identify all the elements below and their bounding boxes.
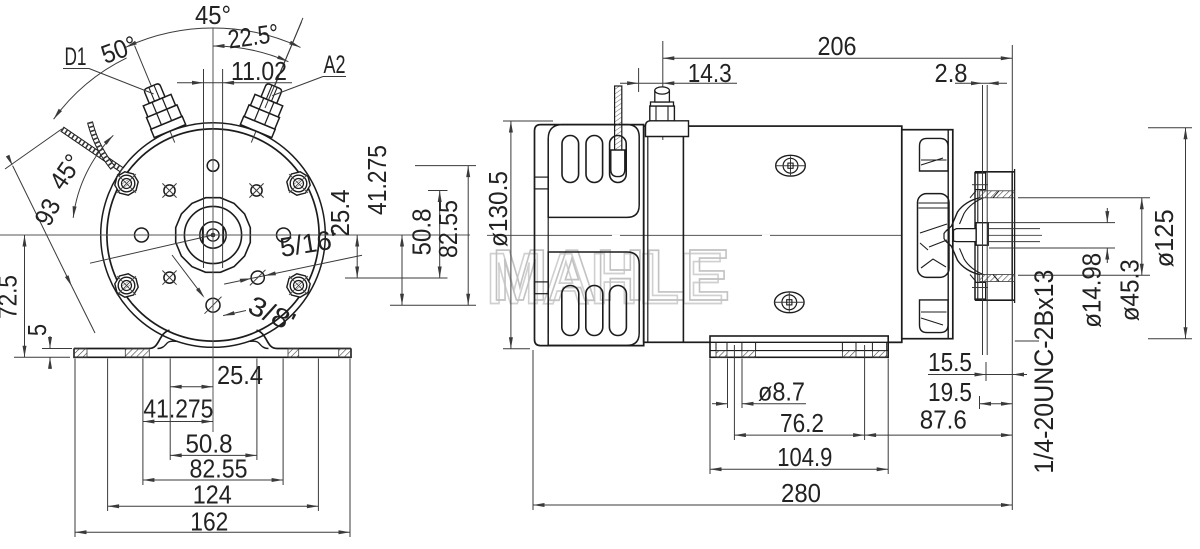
foot side hatch 1 xyxy=(716,351,727,358)
svg-text:2.8: 2.8 xyxy=(935,58,968,88)
construction line to lower-left xyxy=(90,235,213,263)
dim 45 deg arc xyxy=(126,28,301,47)
foot side hatch 2 xyxy=(742,351,756,358)
svg-text:D1: D1 xyxy=(65,43,87,71)
svg-text:A2: A2 xyxy=(324,51,346,79)
dim 14.3 xyxy=(638,68,640,92)
flange face extension line xyxy=(1011,45,1013,171)
svg-text:ø14.98: ø14.98 xyxy=(1077,253,1107,328)
dim dia130.5 xyxy=(503,120,553,122)
dim 82.55 right vertical xyxy=(467,166,469,306)
leader line 3/8 upper xyxy=(172,255,203,296)
svg-text:72.5: 72.5 xyxy=(0,275,23,319)
dim 76.2 xyxy=(734,434,864,436)
end cap outline xyxy=(535,125,644,346)
leader line 3/8 text xyxy=(223,311,246,316)
MAHLE watermark xyxy=(486,236,730,320)
hole ticks 5/16 xyxy=(250,270,266,286)
svg-text:15.5: 15.5 xyxy=(928,347,972,377)
foot section hatch 2 xyxy=(125,349,149,358)
screw boss LR xyxy=(287,274,310,297)
horizontal centerline xyxy=(0,234,470,236)
leader UNC xyxy=(1015,340,1039,342)
hole ticks 3/8 xyxy=(205,297,222,314)
flange hatch top xyxy=(980,191,1015,198)
screw boss UL xyxy=(115,172,138,195)
foot section hatch 1 xyxy=(74,349,87,358)
svg-text:162: 162 xyxy=(190,507,228,537)
svg-text:104.9: 104.9 xyxy=(777,442,832,472)
foot side hatch 3 xyxy=(842,351,856,358)
vent ovals upper xyxy=(562,136,579,183)
end cap upper panel xyxy=(548,125,639,218)
leader line 5/16 xyxy=(224,255,362,284)
dim 82.55 bottom xyxy=(143,479,283,481)
svg-text:11.02: 11.02 xyxy=(231,56,287,86)
frame screw lower xyxy=(775,292,805,313)
svg-text:41.275: 41.275 xyxy=(143,394,213,424)
frame tube xyxy=(644,126,902,342)
svg-text:ø125: ø125 xyxy=(1149,209,1179,267)
dim 206 xyxy=(663,57,1013,59)
dim 5 xyxy=(49,336,51,349)
crossed hole UL xyxy=(164,185,175,196)
end cap lower panel xyxy=(548,252,639,345)
foot section hatch 4 xyxy=(339,349,351,358)
right view centerline xyxy=(487,234,1042,236)
shaft hub with flats xyxy=(200,222,226,248)
svg-text:1/4-20UNC-2Bx13: 1/4-20UNC-2Bx13 xyxy=(1029,270,1059,474)
wire 1 xyxy=(62,129,122,170)
wire 2 xyxy=(90,122,113,168)
dim 50 deg arc xyxy=(54,58,127,119)
frame screw upper xyxy=(776,155,806,176)
bell housing upper curve xyxy=(946,198,980,232)
svg-text:ø130.5: ø130.5 xyxy=(483,171,513,247)
bell housing lower curve xyxy=(946,241,980,275)
svg-text:14.3: 14.3 xyxy=(688,58,732,88)
dim 22.5 deg arc xyxy=(213,46,288,62)
stud axis construction line A2 xyxy=(265,22,302,108)
shaft bore circle xyxy=(207,229,219,241)
hub polygon xyxy=(176,198,251,273)
svg-text:76.2: 76.2 xyxy=(780,408,824,438)
foot section hatch 3 xyxy=(288,349,299,358)
flange tapped hole top xyxy=(975,173,986,190)
dim 11.02 xyxy=(177,82,292,84)
hole 5/16 xyxy=(251,271,264,284)
dim 15.5 xyxy=(928,374,986,376)
dim dia14.98 xyxy=(989,222,1115,224)
end cap rim line xyxy=(547,139,549,333)
bottom edge segment xyxy=(888,341,902,343)
dim 93 xyxy=(13,166,72,287)
screw boss LL xyxy=(115,274,138,297)
hole right xyxy=(277,228,291,242)
shaft edge ext lines xyxy=(989,228,1040,230)
vent opening A xyxy=(920,138,949,171)
dim 19.5 xyxy=(980,403,1013,405)
screw boss UR xyxy=(287,172,310,195)
dim 50.8 bottom xyxy=(170,454,257,456)
svg-text:124: 124 xyxy=(193,480,232,510)
band edge line 2 xyxy=(682,126,684,342)
svg-text:5: 5 xyxy=(22,324,52,336)
svg-text:206: 206 xyxy=(818,31,857,61)
hole top xyxy=(207,160,219,172)
rim notch lower xyxy=(535,282,549,294)
terminal stud A2 xyxy=(236,11,319,149)
hole left xyxy=(135,228,149,242)
svg-text:41.275: 41.275 xyxy=(362,145,392,215)
vent ovals lower xyxy=(562,286,579,336)
dim 87.6 xyxy=(865,434,1013,436)
hub circle xyxy=(184,206,241,263)
dim 72.5 xyxy=(24,235,26,357)
dim 2.8 xyxy=(955,82,1007,84)
spigot line 1 xyxy=(982,85,984,355)
dim 25.4 right vertical xyxy=(356,235,358,278)
dim 280 xyxy=(533,504,1013,506)
dim dia8.7 xyxy=(712,403,728,405)
end housing inner wall xyxy=(947,130,949,339)
rim notch upper xyxy=(535,177,549,189)
dim dia45.3 xyxy=(1018,197,1150,199)
dim 25.4 bottom xyxy=(170,386,213,388)
svg-text:50.8: 50.8 xyxy=(407,209,437,256)
threaded rod xyxy=(615,86,622,156)
svg-text:ø8.7: ø8.7 xyxy=(758,377,805,407)
svg-text:87.6: 87.6 xyxy=(920,405,967,435)
svg-text:280: 280 xyxy=(781,478,821,508)
extension lines bottom left view xyxy=(74,359,76,538)
mounting foot profile xyxy=(74,330,170,348)
crossed hole LL xyxy=(164,272,175,283)
svg-text:ø45.3: ø45.3 xyxy=(1115,259,1145,321)
foot inner bend lines xyxy=(158,341,178,348)
end housing outline xyxy=(902,130,953,339)
dim 124 bottom xyxy=(108,505,319,507)
flange plate outline xyxy=(975,171,1015,173)
vertical centerline xyxy=(212,28,214,432)
svg-text:MAHLE: MAHLE xyxy=(492,236,730,316)
flange hatch bottom xyxy=(980,275,1015,282)
band edge line 1 xyxy=(647,126,649,342)
shaft center dot xyxy=(211,233,216,238)
shaft xyxy=(944,232,946,241)
svg-text:25.4: 25.4 xyxy=(217,360,263,390)
ext lines bottom right xyxy=(532,350,534,510)
dim dia125 xyxy=(1148,127,1192,129)
vent opening B xyxy=(918,194,950,278)
dim 50.8 right vertical xyxy=(439,191,441,279)
svg-text:82.55: 82.55 xyxy=(433,200,463,258)
foot side view xyxy=(710,336,888,357)
flange tapped hole bottom xyxy=(975,282,986,299)
svg-text:19.5: 19.5 xyxy=(928,377,972,407)
vent opening C xyxy=(920,300,949,333)
dim 41.275 bottom xyxy=(143,421,213,423)
crossed hole UR xyxy=(251,185,262,196)
spigot line 2 xyxy=(986,85,988,355)
foot side hatch 4 xyxy=(872,351,886,358)
dim 162 bottom xyxy=(75,531,350,533)
motor body circle xyxy=(107,129,319,341)
dim 104.9 xyxy=(710,468,888,470)
dim 45 deg wire arc xyxy=(73,135,113,218)
flange ring circle xyxy=(101,123,326,348)
hole bottom 3/8 xyxy=(206,298,220,312)
terminal stud side view xyxy=(662,41,664,140)
terminal stud D1 xyxy=(119,39,191,149)
dim 41.275 right vertical xyxy=(401,235,403,305)
